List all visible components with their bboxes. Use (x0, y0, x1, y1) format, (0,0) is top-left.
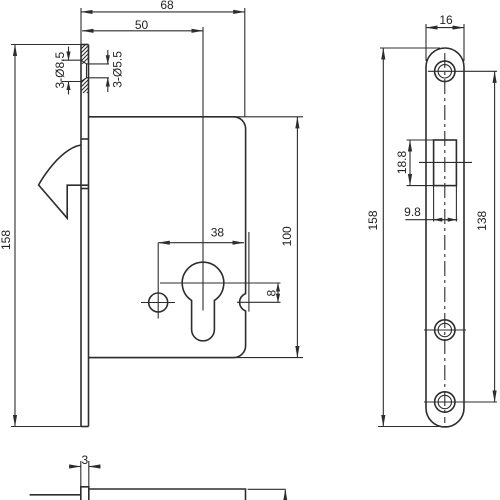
bottom view dimension 3 (69, 453, 101, 487)
faceplate hatching (74, 34, 92, 110)
cylinder center line horizontal (160, 282, 281, 284)
euro cylinder hole (182, 262, 224, 341)
lock body outline (89, 117, 246, 358)
label 3-O5.5 (108, 50, 125, 92)
notch extension line (248, 232, 250, 312)
dimension 50 (82, 18, 203, 32)
svg-text:158: 158 (366, 210, 380, 230)
follower hole (149, 293, 168, 312)
bottom screw hole (424, 392, 497, 412)
notch center line (237, 301, 281, 303)
bolt opening rect (434, 140, 457, 186)
svg-text:3: 3 (81, 453, 88, 467)
dimension 158 left (0, 45, 81, 427)
label 3-O8.5 (53, 47, 81, 95)
slot tick bottom (81, 188, 89, 190)
top screw hole (428, 61, 497, 81)
dimension 8 (264, 283, 278, 302)
dimension 18.8 (395, 140, 434, 186)
dimension 100 (89, 117, 304, 358)
bolt opening center line (419, 161, 472, 163)
svg-text:3-Ø8.5: 3-Ø8.5 (53, 52, 67, 89)
svg-text:50: 50 (135, 18, 149, 32)
svg-text:68: 68 (160, 0, 174, 12)
svg-text:3-Ø5.5: 3-Ø5.5 (110, 51, 124, 88)
hook bolt (39, 145, 89, 218)
dimension 16 (426, 13, 464, 61)
dimension 9.8 (404, 186, 457, 222)
bottom view outline (30, 487, 246, 500)
svg-text:158: 158 (0, 230, 13, 250)
follower hole h center line (141, 302, 175, 304)
svg-text:8: 8 (264, 290, 278, 297)
svg-text:9.8: 9.8 (404, 205, 421, 219)
dimension 138 (475, 71, 495, 402)
faceplate front view capsule (426, 48, 464, 427)
svg-text:100: 100 (280, 226, 294, 246)
bottom view extension line (248, 488, 286, 490)
svg-text:38: 38 (211, 226, 225, 240)
countersunk hole section (81, 60, 109, 81)
svg-text:16: 16 (439, 13, 453, 27)
follower hole v center line (157, 243, 159, 319)
slot tick top (81, 138, 89, 140)
svg-text:138: 138 (475, 210, 489, 230)
faceplate side section (81, 45, 89, 427)
capsule center line (444, 53, 446, 423)
dimension 38 (158, 226, 244, 243)
dimension 68 (81, 0, 245, 117)
cylinder center line vertical (202, 27, 204, 311)
middle screw hole (424, 320, 466, 340)
dimension 158 right (366, 48, 450, 427)
bottom view dim arrow (284, 489, 286, 500)
svg-text:18.8: 18.8 (395, 150, 409, 174)
